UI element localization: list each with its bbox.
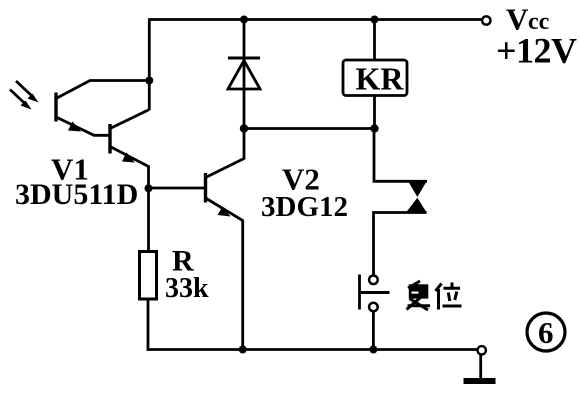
- node relay bottom junction: [370, 124, 378, 132]
- wire bottom rail: [147, 348, 478, 351]
- terminal ground open circle: [478, 346, 486, 354]
- svg-text:33k: 33k: [165, 273, 209, 304]
- diode VD triangle: [228, 61, 260, 90]
- ground symbol: [464, 355, 496, 381]
- thyristor lower triangle: [406, 198, 427, 213]
- thyristor upper triangle: [408, 180, 428, 197]
- transistor Q2 (V1 darlington stage 2) base bar: [108, 124, 111, 154]
- diode VD cathode bar: [228, 57, 260, 60]
- node pushbutton bottom rail junction: [369, 346, 377, 354]
- wire thyristor branch lower jog: [374, 213, 427, 276]
- node top rail relay junction: [371, 16, 379, 24]
- pushbutton actuator bar: [360, 275, 390, 310]
- wire Q1 collector: [56, 81, 149, 99]
- pushbutton lower contact circle: [369, 303, 378, 312]
- transistor Q2 emitter with arrow: [110, 147, 149, 254]
- phototransistor V1 light arrow 1: [16, 81, 39, 103]
- svg-text:+12V: +12V: [496, 31, 577, 71]
- pushbutton upper contact circle: [369, 276, 378, 285]
- svg-text:KR: KR: [356, 61, 405, 97]
- node V2 emitter bottom rail junction: [239, 346, 247, 354]
- label reset 复位: [407, 281, 462, 310]
- wire relay branch top: [373, 20, 376, 62]
- transistor Q1 (V1 darlington stage 1) base bar: [54, 93, 57, 122]
- transistor V2 emitter with arrow: [206, 198, 243, 350]
- wire pushbutton to bottom rail: [372, 312, 375, 350]
- resistor R body: [140, 252, 157, 300]
- wire diode node to relay node: [244, 127, 375, 130]
- node top rail diode junction: [240, 16, 248, 24]
- wire relay branch bottom: [373, 95, 376, 130]
- wire left vertical from top rail: [148, 18, 151, 110]
- transistor Q1 emitter with arrow: [56, 117, 110, 135]
- wire diode branch vertical: [243, 20, 246, 129]
- svg-text:3DG12: 3DG12: [261, 191, 348, 223]
- wire base of V2: [149, 187, 206, 190]
- figure number 6 circled: [527, 313, 565, 351]
- transistor V2 collector: [206, 127, 245, 178]
- svg-text:6: 6: [538, 315, 554, 350]
- node Q1 collector junction: [145, 77, 153, 85]
- label Vcc: [506, 2, 550, 37]
- transistor Q2 collector: [110, 110, 149, 129]
- wire resistor to bottom rail: [147, 299, 150, 351]
- node base of V2 junction: [145, 184, 153, 192]
- phototransistor V1 light arrow 2: [10, 90, 32, 110]
- terminal Vcc open circle: [482, 16, 490, 24]
- wire top rail Vcc: [150, 18, 482, 21]
- wire thyristor branch upper jog: [374, 129, 427, 182]
- transistor V2 base bar: [204, 173, 207, 203]
- node diode bottom junction: [240, 124, 248, 132]
- relay KR box: [343, 60, 407, 96]
- svg-text:3DU511D: 3DU511D: [15, 178, 138, 211]
